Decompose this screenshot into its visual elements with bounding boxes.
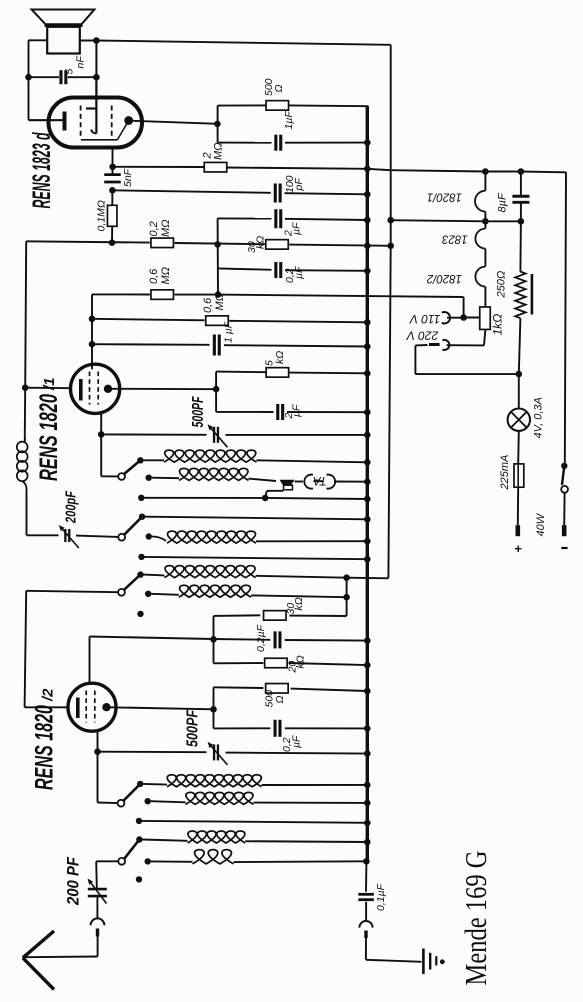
svg-text:0,6: 0,6: [148, 268, 160, 284]
node below 8uF: [518, 218, 525, 225]
node grid-5nF: [109, 164, 116, 171]
ground symbol: [422, 949, 425, 975]
label minus: [561, 547, 567, 549]
svg-text:MΩ: MΩ: [213, 142, 225, 160]
wire riser 213 lower: [213, 687, 215, 728]
wire 500ohm2 row: [214, 686, 264, 689]
node 346-577: [343, 574, 350, 581]
switch S1: [118, 473, 125, 480]
jack TA top: [280, 480, 295, 485]
capacitor 1uF anode: [274, 135, 277, 151]
svg-text:/1: /1: [41, 377, 58, 391]
svg-text:+: +: [511, 545, 526, 553]
coil L4: [144, 574, 165, 577]
wire 0.6M-1 row: [92, 293, 150, 295]
tube U1 screen terminal: [124, 116, 133, 125]
resistor 0.6M first: [151, 290, 174, 300]
svg-text:200pF: 200pF: [63, 490, 80, 523]
coil L5: [151, 594, 179, 595]
wire jack bottom: [267, 490, 284, 492]
node bus-142: [364, 139, 371, 146]
wire 30k2 row: [289, 615, 346, 617]
svg-text:0,1µF: 0,1µF: [375, 883, 387, 911]
wire row 821: [142, 821, 367, 823]
wire 250 to lamp: [519, 318, 521, 374]
wire grid lead 1820-2: [25, 706, 70, 708]
wire 0.2M row: [26, 241, 150, 242]
wire left V1b: [25, 591, 27, 708]
switch S3: [118, 589, 125, 596]
switch mains pivot: [561, 486, 568, 493]
resistor 250 ohm zigzag: [515, 272, 525, 319]
svg-text:0,2: 0,2: [148, 221, 160, 236]
node grid 1820-1: [22, 384, 29, 391]
resistor 5k: [266, 368, 289, 378]
wire 0.2uF3 row: [214, 727, 271, 729]
switch S2: [118, 534, 125, 541]
wire speaker right (anode top): [80, 40, 97, 42]
antenna symbol: [23, 931, 54, 958]
node mains switch top: [561, 463, 567, 469]
node S1 contact3: [138, 495, 144, 501]
wire to switch1: [101, 475, 118, 477]
svg-text:1820/1: 1820/1: [427, 191, 462, 203]
svg-text:250Ω: 250Ω: [496, 271, 508, 299]
node bus-822: [364, 820, 371, 827]
wire to ground: [365, 938, 367, 960]
node 5nF left: [25, 74, 32, 81]
node 5nF-100pF: [109, 187, 116, 194]
node bus-541: [364, 538, 371, 545]
node bus-842: [364, 839, 371, 846]
wire main bus: [367, 106, 368, 108]
svg-text:0,6: 0,6: [202, 297, 214, 313]
wire ant down: [97, 937, 99, 957]
switch S5: [118, 858, 125, 865]
capacitor 0.2uF top: [274, 262, 277, 278]
capacitor 500pF trimmer: [213, 427, 215, 443]
wire 5nF branch: [29, 76, 60, 78]
node bus-499: [364, 496, 371, 503]
tube U2 cathode bar: [79, 379, 83, 401]
node bus-481: [364, 478, 371, 485]
capacitor 5nF grid: [104, 173, 121, 176]
wire 500ohm row: [218, 104, 266, 106]
wire to switch3: [26, 591, 118, 592]
svg-text:220 V: 220 V: [406, 329, 439, 343]
wire riser 218: [217, 218, 219, 294]
potentiometer 1k: [480, 307, 491, 330]
node 265-497: [262, 495, 269, 502]
wire 220V link: [415, 344, 427, 346]
node bus-691: [364, 688, 371, 695]
terminal plus pin: [515, 525, 520, 536]
wire U1 cathode lead: [29, 119, 63, 121]
svg-text:RENS 1820: RENS 1820: [31, 705, 59, 790]
wire ant horiz: [25, 956, 98, 959]
wire anode vertical: [95, 41, 97, 113]
fuse 225mA: [514, 464, 524, 487]
capacitor 0.2uF second: [273, 631, 276, 648]
svg-text:1µF: 1µF: [283, 111, 295, 130]
svg-text:225mA: 225mA: [499, 455, 511, 491]
wire 1uF2 row: [92, 343, 210, 346]
wire U3 anode row: [111, 707, 214, 709]
node speaker-right: [93, 37, 100, 44]
node bus-412: [364, 409, 371, 416]
wire 200pF row: [27, 534, 59, 536]
svg-text:5nF: 5nF: [122, 168, 134, 187]
switch S4: [118, 800, 125, 807]
svg-text:1 µF: 1 µF: [223, 321, 235, 343]
node bus-346: [364, 343, 371, 350]
node 0.1M bottom: [109, 239, 116, 246]
wire 110V to pot: [447, 317, 464, 319]
wire 110V drop: [463, 297, 465, 318]
coil L3: [152, 537, 166, 541]
wire 0.2uF row: [218, 268, 272, 269]
wire riser 216: [215, 372, 217, 412]
wire 2uF2 row: [216, 411, 273, 413]
node S5 contact2: [145, 858, 151, 864]
resistor 0.6M second: [206, 316, 229, 326]
tube U2 anode terminal: [104, 385, 112, 393]
capacitor 200pF trimmer: [64, 529, 66, 542]
svg-text:1kΩ: 1kΩ: [491, 314, 505, 336]
capacitor 8uF: [512, 195, 529, 198]
capacitor 200PF antenna trimmer: [88, 888, 107, 891]
capacitor 500pF second trimmer: [213, 744, 215, 760]
wire to switch5: [96, 860, 118, 862]
node 213-709: [210, 706, 217, 713]
node bus-784: [364, 782, 371, 789]
node v2-220: [387, 217, 394, 224]
node heater-mid: [482, 218, 489, 225]
wire 8uF to 250: [519, 221, 522, 271]
capacitor 5nF (speaker): [59, 70, 62, 84]
svg-text:Mende 169 G: Mende 169 G: [458, 851, 493, 986]
svg-text:RENS 1820: RENS 1820: [35, 394, 63, 481]
wire 0.6M-2 row: [92, 319, 205, 321]
svg-text:µF: µF: [291, 222, 303, 235]
node S4 contact3: [136, 818, 142, 824]
coil L8: [142, 840, 187, 841]
wire 500pF row: [101, 433, 206, 435]
svg-text:1823: 1823: [442, 232, 468, 244]
svg-text:µF: µF: [291, 404, 303, 417]
node S3 contact2: [145, 591, 151, 597]
svg-text:TA: TA: [313, 474, 327, 486]
wire row 497: [144, 497, 265, 499]
wire 0.1M down: [111, 226, 113, 243]
wire to switch4: [98, 802, 119, 805]
wire bus to 0.1uF: [365, 861, 367, 892]
wire 100pF row: [112, 190, 270, 193]
wire second vertical: [390, 45, 392, 220]
svg-text:kΩ: kΩ: [293, 597, 305, 610]
wire 2M ohm row: [113, 166, 204, 168]
node anode junction: [214, 121, 221, 128]
resistor 0.2M: [151, 238, 174, 248]
svg-text:/2: /2: [40, 688, 57, 702]
connector ground socket: [359, 921, 372, 928]
wire U1 grid down: [112, 148, 114, 176]
node bus-462: [364, 459, 371, 466]
svg-text:kΩ: kΩ: [255, 236, 267, 249]
wire U3 cathode down: [97, 731, 99, 803]
resistor 500 (U1 screen): [266, 101, 289, 111]
wire row 517: [145, 517, 367, 520]
resistor 20k: [265, 658, 288, 668]
node 213-639: [210, 636, 217, 643]
wire 5k row: [216, 371, 266, 374]
node heater-top-1: [482, 168, 489, 175]
wire grid lead 1820-1: [25, 387, 72, 390]
resistor 0.1M: [107, 205, 117, 226]
wire row 557: [145, 557, 368, 559]
node bus-434: [364, 432, 371, 439]
switch mains lever: [562, 466, 564, 485]
node S1 contact2: [146, 475, 152, 481]
wire riser 213 upper: [213, 616, 215, 663]
wire top long: [96, 41, 390, 45]
connector TA arcs: [304, 475, 313, 489]
wire 20k row: [214, 662, 264, 664]
node bus-270: [364, 268, 371, 275]
svg-text:nF: nF: [75, 56, 87, 69]
node S5 contact3: [136, 876, 142, 882]
coil L6: [143, 783, 167, 786]
tube U1 grid1 dashed: [80, 106, 82, 138]
coil L7: [151, 801, 186, 802]
node 92-344: [89, 341, 96, 348]
svg-text:Ω: Ω: [273, 85, 285, 93]
node bus-640: [364, 637, 371, 644]
node cathode-500pF: [98, 431, 105, 438]
node bus-861: [363, 858, 370, 865]
node bus-322: [364, 319, 371, 326]
node S4 contact2: [145, 798, 151, 804]
tube U1 grid2 dashed: [111, 106, 113, 138]
wire speaker left to cathode: [29, 39, 48, 41]
node S2 contact2: [146, 533, 152, 539]
wire 2uF row: [218, 217, 272, 219]
svg-text:0,2µF: 0,2µF: [255, 624, 267, 652]
svg-text:MΩ: MΩ: [214, 293, 226, 311]
wire L0 down: [26, 489, 28, 535]
node 92-318: [89, 316, 96, 323]
wire left coil L0 top: [24, 435, 26, 442]
coil L2: [152, 477, 179, 480]
svg-text:µF: µF: [291, 735, 303, 748]
connector antenna pin: [96, 929, 99, 937]
tube U2 grid dashed: [89, 372, 91, 405]
wire switch to minus: [563, 493, 565, 526]
tube U2 RENS1820/1 envelope: [71, 364, 120, 413]
svg-text:500PF: 500PF: [190, 396, 207, 427]
node bus-802: [364, 800, 371, 807]
node 5nF right: [93, 74, 100, 81]
svg-text:RENS 1823 d: RENS 1823 d: [28, 132, 56, 208]
coil L0 antenna: [17, 442, 28, 453]
wire lamp vert: [518, 374, 520, 408]
wire right edge vertical: [565, 172, 566, 466]
tube U1 cathode bar: [63, 112, 67, 131]
svg-text:4V, 0,3A: 4V, 0,3A: [533, 397, 545, 438]
capacitor 0.2uF third: [273, 720, 276, 737]
svg-text:µF: µF: [293, 266, 305, 279]
svg-text:MΩ: MΩ: [160, 267, 172, 285]
tube U3 cathode bar: [76, 698, 80, 719]
svg-text:200 PF: 200 PF: [64, 856, 83, 905]
tube U1 RENS1823d envelope: [49, 98, 143, 148]
wire grid to 0.1M: [111, 190, 113, 205]
node bus-665: [364, 662, 371, 669]
terminal minus pin: [562, 525, 567, 536]
coil L1: [143, 459, 164, 461]
resistor 30k first: [266, 240, 289, 250]
wire U2 cathode down: [100, 413, 102, 476]
node S2 contact3: [138, 554, 144, 560]
wire anode row: [133, 121, 217, 124]
wire 0.2uF2 row: [90, 637, 214, 640]
wire to ant plug: [96, 898, 98, 919]
connector 220V socket: [443, 340, 450, 350]
tube U1 anode: [86, 107, 96, 109]
connector antenna socket: [91, 918, 105, 925]
svg-text:110 V: 110 V: [409, 312, 440, 326]
node U2 anode riser: [213, 386, 220, 393]
lamp 4V 0.3A: [508, 409, 530, 431]
node bus-194: [364, 191, 371, 198]
svg-text:500PF: 500PF: [185, 710, 202, 747]
wire 8uF vert: [520, 172, 522, 196]
capacitor 2uF second: [276, 404, 279, 420]
coil L9: [151, 860, 193, 862]
resistor 2M: [204, 162, 227, 172]
node bus-728: [364, 725, 371, 732]
wire 110V long row: [218, 295, 464, 297]
capacitor 100pF: [274, 184, 277, 203]
node bus-373: [364, 370, 371, 377]
wire riser 500ohm: [217, 106, 219, 143]
svg-text:40W: 40W: [535, 512, 547, 536]
tube U3 anode terminal: [102, 703, 110, 711]
wire v13: [346, 578, 348, 616]
connector 220V pin: [429, 343, 440, 346]
svg-text:pF: pF: [293, 178, 305, 192]
svg-text:8µF: 8µF: [497, 192, 509, 212]
node v2-245: [387, 243, 394, 250]
resistor 30k second: [264, 611, 287, 621]
node 346-597: [343, 594, 350, 601]
wire lamp to fuse: [517, 431, 520, 464]
svg-text:1820/2: 1820/2: [426, 272, 462, 284]
wire fuse to plus: [517, 487, 519, 525]
capacitor 2uF top: [274, 209, 277, 228]
capacitor 0.1uF: [358, 893, 374, 896]
connector 110V socket: [442, 312, 450, 323]
node cathode2-500pF: [94, 748, 101, 755]
speaker: [32, 10, 95, 25]
capacitor 1uF second: [213, 335, 216, 356]
heater chain: [484, 172, 486, 191]
wire heater top row: [367, 169, 390, 170]
wire heater mid row: [391, 220, 486, 221]
wire 0.1uF to plug: [365, 902, 367, 922]
wire antenna vert: [95, 861, 98, 888]
svg-text:kΩ: kΩ: [274, 351, 286, 364]
resistor 500 second: [266, 684, 289, 694]
tube U3 grid dashed: [85, 691, 87, 723]
wire 220V row: [447, 344, 485, 346]
node bus-245: [364, 243, 371, 250]
node bus-168: [364, 166, 371, 173]
node heater-top-2: [518, 168, 525, 175]
node bus-559: [364, 556, 371, 563]
svg-text:MΩ: MΩ: [160, 219, 172, 237]
wire TA to bus: [295, 481, 304, 483]
node 110V junction: [460, 314, 467, 321]
node lamp-top: [516, 371, 523, 378]
node bus-753: [364, 750, 371, 757]
svg-text:kΩ: kΩ: [295, 655, 307, 668]
node S3 contact3: [137, 611, 143, 617]
tube U1 bottom bracket: [81, 139, 117, 141]
wire U2 anode row: [112, 388, 216, 390]
node bus-519: [364, 516, 371, 523]
node bus-220: [364, 217, 371, 224]
node 218-294: [215, 291, 222, 298]
wire 1uF row: [218, 142, 272, 144]
connector ground pin: [364, 931, 367, 939]
wire 500pF2 row: [98, 751, 207, 754]
tube U3 RENS1820/2 envelope: [68, 683, 116, 731]
wire left V1: [25, 241, 26, 387]
wire screen vert 1820-2: [89, 637, 91, 685]
node riser-242: [214, 241, 221, 248]
svg-text:0,1MΩ: 0,1MΩ: [96, 200, 108, 231]
wire screen vert 1820-1: [91, 294, 93, 369]
svg-text:Ω: Ω: [274, 696, 286, 704]
